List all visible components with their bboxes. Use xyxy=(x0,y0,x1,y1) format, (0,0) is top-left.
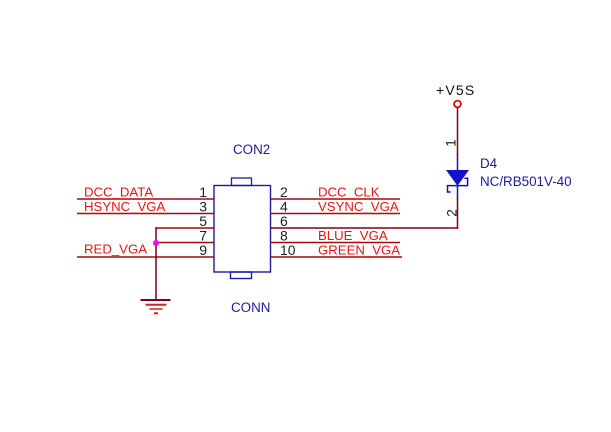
svg-text:DCC_CLK: DCC_CLK xyxy=(318,185,380,200)
svg-text:D4: D4 xyxy=(480,156,498,171)
wire diode cathode down to pin6 xyxy=(457,198,459,229)
svg-text:GREEN_VGA: GREEN_VGA xyxy=(318,243,400,258)
wire pin1 DCC_DATA xyxy=(77,198,214,200)
wire pin5 xyxy=(156,227,214,229)
wire pin6 to diode xyxy=(271,227,459,229)
svg-text:BLUE_VGA: BLUE_VGA xyxy=(318,228,388,243)
junction dot xyxy=(153,240,159,246)
svg-text:RED_VGA: RED_VGA xyxy=(84,242,147,257)
wire pin4 VSYNC_VGA xyxy=(271,213,401,215)
svg-text:CON2: CON2 xyxy=(233,142,270,157)
wire pin2 DCC_CLK xyxy=(271,198,401,200)
svg-text:9: 9 xyxy=(199,242,207,258)
wire pin10 GREEN_VGA xyxy=(271,256,403,258)
svg-text:1: 1 xyxy=(443,139,458,147)
wire pin9 RED_VGA xyxy=(77,256,214,258)
diode D4 xyxy=(447,154,468,199)
wire pin8 BLUE_VGA xyxy=(271,242,401,244)
wire pin7 xyxy=(156,242,214,244)
wire pin3 HSYNC_VGA xyxy=(77,213,214,215)
svg-text:10: 10 xyxy=(280,242,296,258)
svg-text:HSYNC_VGA: HSYNC_VGA xyxy=(84,199,166,214)
svg-text:NC/RB501V-40: NC/RB501V-40 xyxy=(480,174,572,189)
ground xyxy=(141,300,171,313)
connector CON2 body xyxy=(214,178,271,279)
wire ground vertical xyxy=(155,227,157,300)
svg-text:DCC_DATA: DCC_DATA xyxy=(84,185,153,200)
svg-text:CONN: CONN xyxy=(231,300,270,315)
wire +V5S to diode anode xyxy=(457,108,459,155)
svg-text:+V5S: +V5S xyxy=(436,82,475,98)
power +V5S symbol xyxy=(454,101,461,108)
svg-text:VSYNC_VGA: VSYNC_VGA xyxy=(318,199,399,214)
